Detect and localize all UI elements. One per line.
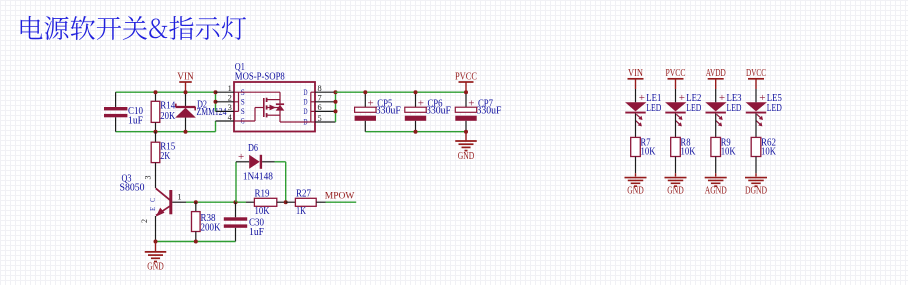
- junction D-pin 7: [334, 100, 338, 104]
- zener diode D2: [175, 92, 226, 132]
- transistor Q3: [120, 174, 187, 242]
- wire gate bottom rail: [116, 131, 216, 133]
- svg-text:1uF: 1uF: [249, 227, 264, 238]
- svg-text:S8050: S8050: [120, 183, 145, 194]
- svg-text:+: +: [719, 92, 725, 104]
- svg-text:D: D: [304, 88, 308, 97]
- capacitor CP6: [405, 92, 452, 132]
- resistor R19: [246, 188, 286, 217]
- op-amp U1 box Q1 MOS-P-SOP8: [234, 62, 315, 132]
- svg-text:D: D: [304, 107, 308, 116]
- svg-text:R14: R14: [160, 100, 175, 111]
- Q1 left pins 1-4 S S S G: [216, 83, 245, 126]
- svg-text:LED: LED: [767, 103, 782, 114]
- svg-text:10K: 10K: [641, 146, 657, 157]
- svg-text:R27: R27: [296, 188, 311, 199]
- junction D-pin 6: [334, 109, 338, 113]
- svg-text:LED: LED: [686, 103, 701, 114]
- svg-text:ZMM124: ZMM124: [197, 107, 227, 118]
- wire D-pins vertical: [335, 92, 337, 122]
- capacitor C10: [104, 92, 143, 132]
- svg-text:+: +: [368, 98, 374, 110]
- svg-text:10K: 10K: [255, 206, 271, 217]
- resistor R14: [151, 92, 176, 132]
- svg-text:LED: LED: [727, 103, 742, 114]
- svg-text:GND: GND: [458, 150, 475, 162]
- svg-text:MOS-P-SOP8: MOS-P-SOP8: [235, 72, 285, 83]
- wire PVCC rail: [336, 91, 467, 93]
- svg-text:+: +: [679, 92, 685, 104]
- wire G-pin vertical: [215, 121, 217, 132]
- junction gate-rail R14: [154, 130, 158, 134]
- junction rail CP6: [414, 90, 418, 94]
- resistor R38: [192, 202, 222, 241]
- svg-text:20K: 20K: [160, 111, 176, 122]
- resistor R15: [151, 132, 175, 188]
- svg-text:+: +: [238, 151, 244, 163]
- svg-text:8: 8: [318, 83, 322, 93]
- junction base C30: [234, 200, 238, 204]
- svg-text:330uF: 330uF: [477, 106, 502, 117]
- svg-text:1N4148: 1N4148: [243, 172, 273, 183]
- svg-text:+: +: [418, 98, 424, 110]
- svg-text:AGND: AGND: [705, 185, 727, 197]
- net label MPOW: [325, 192, 355, 202]
- power port PVCC: [455, 70, 477, 92]
- junction D6 R27: [284, 200, 288, 204]
- svg-text:R19: R19: [255, 188, 270, 199]
- title 电源软开关&amp;指示灯: [21, 16, 246, 40]
- LED LE3 column (AVDD R9 AGND): [705, 68, 742, 197]
- capacitor CP7: [455, 92, 502, 132]
- svg-text:VIN: VIN: [177, 70, 194, 82]
- svg-text:DVCC: DVCC: [746, 68, 766, 79]
- svg-text:PVCC: PVCC: [455, 70, 477, 82]
- capacitor CP5: [355, 92, 402, 132]
- svg-text:2K: 2K: [160, 151, 171, 162]
- svg-text:5: 5: [318, 113, 322, 123]
- svg-text:4: 4: [228, 112, 233, 122]
- svg-text:S: S: [241, 97, 245, 106]
- svg-text:1: 1: [228, 83, 232, 93]
- svg-text:VIN: VIN: [628, 68, 643, 79]
- svg-text:10K: 10K: [761, 146, 777, 157]
- junction S-pin 1: [214, 90, 218, 94]
- svg-text:PVCC: PVCC: [666, 68, 686, 79]
- diode D6: [236, 143, 286, 202]
- svg-text:+: +: [759, 92, 765, 104]
- svg-text:S: S: [241, 107, 245, 116]
- svg-text:2: 2: [228, 93, 232, 103]
- capacitor C30: [224, 202, 265, 241]
- svg-text:D: D: [304, 97, 308, 106]
- svg-text:1: 1: [178, 193, 182, 202]
- Q1 right pins 8-5 D D D D: [304, 83, 336, 127]
- svg-text:7: 7: [318, 93, 322, 103]
- svg-text:MPOW: MPOW: [325, 192, 355, 202]
- svg-text:GND: GND: [627, 185, 644, 197]
- wire emitter ground rail: [156, 241, 236, 243]
- junction S-pin 2: [214, 100, 218, 104]
- junction gnd Q3: [154, 240, 158, 244]
- junction VIN-rail D2: [184, 90, 188, 94]
- junction D-pin 8: [334, 90, 338, 94]
- svg-text:AVDD: AVDD: [706, 68, 726, 79]
- junction base R38: [194, 200, 198, 204]
- svg-text:3: 3: [228, 102, 232, 112]
- junction gnd CP6: [414, 130, 418, 134]
- svg-text:1uF: 1uF: [128, 116, 143, 127]
- svg-text:DGND: DGND: [745, 185, 767, 197]
- wire S-pins vertical: [215, 92, 217, 111]
- svg-text:6: 6: [318, 102, 322, 112]
- svg-text:+: +: [639, 92, 645, 104]
- LED LE5 column (DVCC R62 DGND): [745, 68, 782, 197]
- svg-text:+: +: [468, 98, 474, 110]
- svg-text:LED: LED: [646, 103, 661, 114]
- ground GND (Q3): [145, 242, 167, 273]
- wire caps ground rail: [365, 131, 466, 133]
- ground GND (caps): [455, 132, 477, 162]
- svg-text:200K: 200K: [201, 223, 222, 234]
- svg-text:330uF: 330uF: [426, 106, 451, 117]
- svg-text:330uF: 330uF: [376, 106, 401, 117]
- Q1 internal MOSFET symbol: [234, 92, 315, 122]
- svg-text:2: 2: [140, 219, 149, 223]
- svg-text:3: 3: [144, 176, 153, 180]
- svg-text:1K: 1K: [296, 206, 307, 217]
- svg-text:D6: D6: [248, 143, 258, 154]
- LED LE2 column (PVCC R8 GND): [665, 68, 702, 197]
- wire VIN top rail: [116, 91, 216, 93]
- resistor R27: [286, 188, 326, 217]
- svg-text:10K: 10K: [721, 146, 737, 157]
- svg-text:GND: GND: [667, 185, 684, 197]
- svg-text:C: C: [148, 198, 157, 202]
- junction VIN-rail R14: [154, 90, 158, 94]
- junction rail PVCC: [464, 90, 468, 94]
- svg-text:E: E: [148, 207, 157, 211]
- power port VIN: [177, 70, 194, 92]
- svg-text:10K: 10K: [681, 146, 697, 157]
- wire MPOW: [326, 201, 357, 203]
- junction gnd CP7: [464, 130, 468, 134]
- svg-text:GND: GND: [147, 261, 164, 273]
- wire Q3 base to R19: [186, 201, 246, 203]
- junction gnd R38: [194, 240, 198, 244]
- junction rail CP5: [363, 90, 367, 94]
- junction gate-rail D2: [184, 130, 188, 134]
- LED LE1 column (VIN R7 GND): [625, 68, 662, 197]
